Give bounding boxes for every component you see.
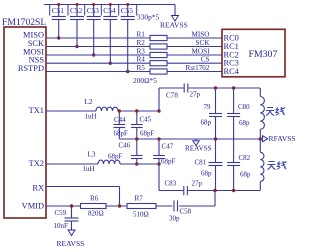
- svg-text:R7: R7: [135, 195, 144, 203]
- svg-text:R2: R2: [137, 39, 146, 47]
- svg-text:Rst1702: Rst1702: [186, 64, 210, 72]
- svg-text:L3: L3: [88, 151, 96, 159]
- svg-text:68p: 68p: [201, 170, 212, 178]
- svg-text:R5: R5: [137, 64, 146, 72]
- svg-text:C55: C55: [121, 6, 134, 15]
- svg-text:REAVSS: REAVSS: [185, 144, 212, 152]
- svg-text:C53: C53: [87, 6, 100, 15]
- svg-text:C45: C45: [140, 116, 152, 124]
- svg-text:27p: 27p: [190, 91, 201, 99]
- svg-text:30p: 30p: [169, 215, 180, 223]
- svg-text:L2: L2: [85, 98, 93, 106]
- svg-text:REAVSS: REAVSS: [57, 239, 85, 248]
- svg-text:R4: R4: [137, 56, 146, 64]
- svg-text:10nF: 10nF: [54, 222, 69, 230]
- svg-text:C58: C58: [180, 208, 192, 216]
- svg-text:REAVSS: REAVSS: [160, 21, 188, 30]
- svg-text:TX1: TX1: [29, 106, 44, 115]
- svg-text:C82: C82: [239, 154, 251, 162]
- svg-text:68p: 68p: [201, 119, 212, 127]
- svg-text:TX2: TX2: [29, 159, 44, 168]
- svg-text:510Ω: 510Ω: [133, 211, 149, 219]
- svg-text:R3: R3: [137, 48, 146, 56]
- svg-text:R6: R6: [90, 195, 99, 203]
- svg-text:C59: C59: [55, 209, 67, 217]
- svg-text:68pF: 68pF: [140, 130, 155, 138]
- svg-text:68pF: 68pF: [108, 153, 123, 161]
- svg-text:RX: RX: [32, 184, 44, 193]
- svg-text:68p: 68p: [240, 171, 251, 179]
- svg-text:79: 79: [204, 103, 212, 111]
- svg-text:330p*5: 330p*5: [137, 13, 159, 22]
- svg-text:C80: C80: [238, 103, 250, 111]
- svg-text:RFAVSS: RFAVSS: [269, 134, 296, 143]
- svg-text:SCK: SCK: [196, 39, 211, 47]
- svg-text:C78: C78: [166, 92, 178, 100]
- svg-text:C47: C47: [162, 143, 174, 151]
- svg-text:68p: 68p: [239, 119, 250, 127]
- svg-text:68pF: 68pF: [161, 158, 176, 166]
- svg-text:27p: 27p: [192, 180, 203, 188]
- svg-text:C44: C44: [114, 116, 126, 124]
- svg-text:C83: C83: [165, 180, 177, 188]
- svg-text:MISO: MISO: [192, 31, 210, 39]
- svg-text:200Ω*5: 200Ω*5: [133, 76, 157, 85]
- svg-text:1uH: 1uH: [85, 113, 97, 121]
- svg-text:VMID: VMID: [22, 202, 44, 211]
- svg-text:C46: C46: [119, 142, 131, 150]
- svg-text:MOSI: MOSI: [192, 48, 211, 56]
- svg-text:R1: R1: [137, 31, 146, 39]
- svg-text:820Ω: 820Ω: [88, 210, 104, 218]
- svg-text:RSTPD: RSTPD: [18, 64, 44, 73]
- svg-text:FM1702SL: FM1702SL: [2, 17, 46, 28]
- svg-text:1uH: 1uH: [83, 165, 95, 173]
- svg-text:CS: CS: [201, 56, 210, 64]
- svg-text:C52: C52: [70, 6, 83, 15]
- svg-text:68pF: 68pF: [114, 130, 129, 138]
- svg-text:C54: C54: [103, 6, 116, 15]
- svg-text:FM307: FM307: [249, 49, 278, 60]
- svg-text:C51: C51: [52, 6, 65, 15]
- svg-text:C81: C81: [195, 159, 207, 167]
- svg-text:RC4: RC4: [224, 67, 240, 76]
